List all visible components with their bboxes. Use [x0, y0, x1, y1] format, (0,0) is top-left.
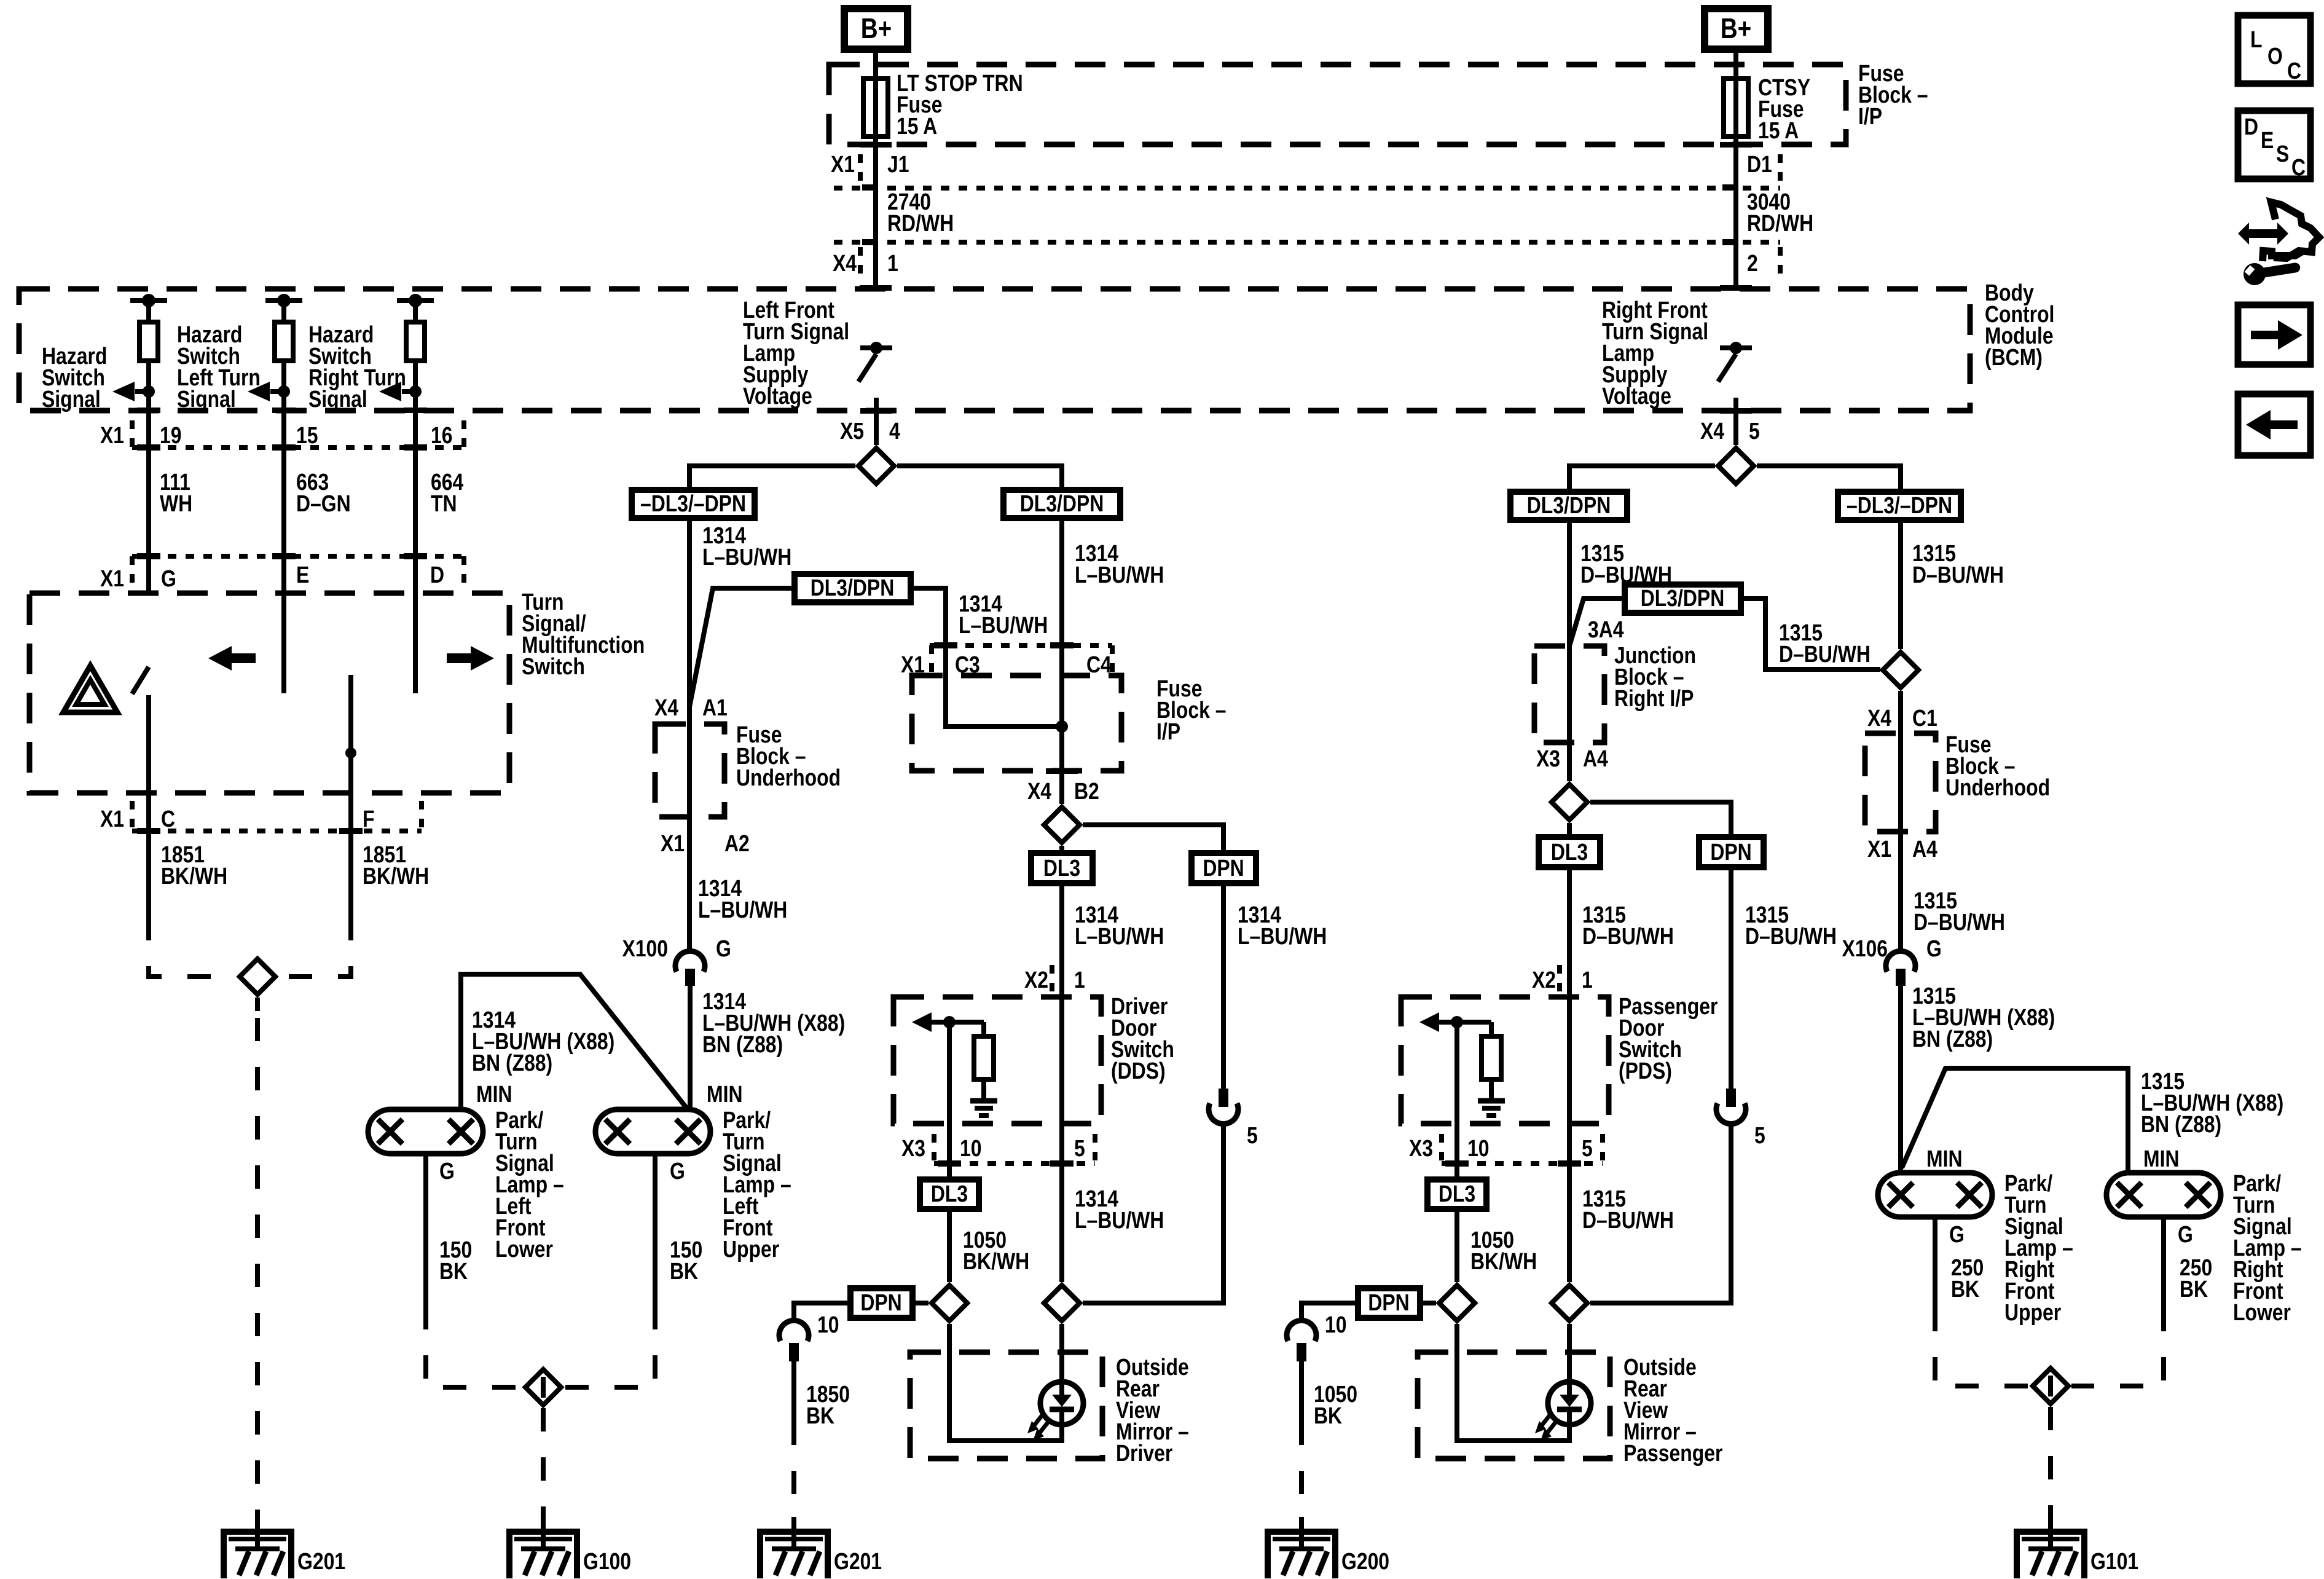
svg-text:BK/WH: BK/WH — [963, 1248, 1029, 1274]
wire diamond right to DPN branch — [1083, 825, 1223, 853]
splice diamond passenger mirror left — [1439, 1285, 1475, 1321]
dashed wire right lower lamp to splice — [2071, 1308, 2164, 1386]
fuse LT STOP TRN 15A — [863, 79, 888, 136]
junction node in fuse block — [1056, 720, 1068, 733]
fuse CTSY 15A — [1724, 79, 1748, 136]
DDS pull-up resistor — [974, 1022, 994, 1101]
svg-text:D–GN: D–GN — [296, 490, 351, 516]
dashed wire splice to G201 — [255, 998, 260, 1517]
wire diamond to -DL3/-DPN (left) — [689, 466, 855, 490]
wire hazard pin 16 — [413, 411, 418, 593]
wire lamp upper ground — [653, 1154, 658, 1306]
svg-text:B+: B+ — [861, 13, 892, 44]
svg-text:–DL3/–DPN: –DL3/–DPN — [1847, 492, 1952, 518]
svg-text:10: 10 — [1325, 1312, 1347, 1337]
svg-text:BK: BK — [1314, 1403, 1342, 1428]
wire DPN branch down to 5-connector — [1221, 883, 1226, 1089]
wire B+ right to fuse — [1733, 53, 1738, 136]
svg-text:TN: TN — [431, 490, 457, 516]
icon box LOC — [2238, 15, 2310, 84]
svg-text:X4: X4 — [654, 695, 678, 720]
wire label 1851 BK/WH (C) — [161, 841, 227, 889]
fuse block underhood dashed box (left) — [655, 724, 724, 817]
hazard switch signal resistor circuit 1 — [112, 294, 167, 411]
svg-text:X1: X1 — [661, 830, 685, 856]
connector row X4 1 / 2 — [833, 242, 1780, 277]
wire D stub in switch — [413, 593, 418, 693]
wire label 1314 L-BU/WH (X88) BN (Z88) lamp lower — [472, 1007, 614, 1076]
connector X4 pin B2 labels — [1027, 778, 1099, 804]
icon box arrow right — [2238, 305, 2310, 364]
svg-text:BK: BK — [1951, 1276, 1979, 1302]
wire hazard pin 19 — [146, 411, 151, 593]
DDS internal ground — [970, 1101, 997, 1116]
svg-text:Underhood: Underhood — [1945, 774, 2050, 800]
connector X4 pin 5 labels (right) — [1700, 418, 1760, 444]
splice diamond passenger mirror right — [1552, 1285, 1587, 1321]
svg-text:(DDS): (DDS) — [1111, 1058, 1166, 1084]
connector row X1 C3 C4 — [901, 645, 1112, 678]
splice diamond driver mirror right — [1044, 1285, 1080, 1321]
svg-text:1: 1 — [1582, 967, 1593, 993]
connector X5 pin 4 labels — [840, 418, 900, 444]
wire inline box right lead to C3 — [911, 588, 1062, 726]
svg-text:O: O — [2267, 43, 2283, 69]
splice diamond below B2 — [1044, 807, 1080, 843]
svg-text:Right I/P: Right I/P — [1614, 685, 1694, 711]
connector row X1 C F — [100, 801, 422, 832]
svg-text:DPN: DPN — [860, 1290, 901, 1315]
svg-text:L–BU/WH: L–BU/WH — [1075, 562, 1164, 588]
svg-text:X5: X5 — [840, 418, 864, 444]
wire A1 to A2 through fuse block — [687, 724, 692, 951]
svg-text:Voltage: Voltage — [1602, 383, 1671, 409]
svg-text:10: 10 — [960, 1135, 982, 1161]
splice diamond X5-4 — [858, 448, 894, 484]
lamp park/turn signal right front lower — [2106, 1173, 2221, 1217]
turn signal / multifunction switch dashed box — [29, 593, 509, 793]
label Hazard Switch Signal — [42, 343, 107, 412]
svg-text:Signal: Signal — [42, 386, 101, 412]
connector row X1 G E D — [100, 556, 464, 592]
wire E stub in switch — [281, 593, 286, 693]
svg-text:Upper: Upper — [2004, 1299, 2062, 1325]
wire label 1315 D-BU/WH (left branch) — [1580, 540, 1672, 588]
icon box arrow left — [2238, 394, 2310, 455]
svg-text:B2: B2 — [1074, 778, 1099, 804]
svg-text:10: 10 — [817, 1312, 839, 1337]
splice diamond to G100 — [525, 1369, 561, 1405]
wire 10-connector to DPN box to splice — [794, 1303, 850, 1321]
net box DPN (driver mirror feed) — [850, 1288, 913, 1318]
net box DL3/DPN (right of left diamond) — [1003, 490, 1120, 518]
wire label 1314 L-BU/WH (A2) — [698, 875, 787, 923]
wire lamp right upper ground — [1933, 1217, 1937, 1308]
connector X4 pin A1 labels — [654, 695, 728, 720]
svg-text:C: C — [161, 806, 175, 832]
inline connector 5 (driver DPN) — [1209, 1089, 1258, 1149]
ground G101 — [2017, 1517, 2138, 1578]
wire diamond to DL3/DPN (right) — [897, 466, 1062, 490]
wire label 1315 D-BU/WH (A4) — [1914, 888, 2005, 935]
hazard symbol triangle — [63, 666, 117, 712]
inline connector X106 pin G — [1842, 935, 1941, 986]
net box -DL3/-DPN (right section) — [1838, 492, 1961, 520]
net box DPN (passenger mirror feed) — [1358, 1288, 1420, 1318]
svg-text:Lower: Lower — [495, 1236, 553, 1262]
label Fuse Block Underhood (right) — [1945, 731, 2050, 800]
wire label 250 BK (upper) — [1951, 1254, 1984, 1302]
svg-text:5: 5 — [1582, 1135, 1593, 1161]
wire 5-connector down and left to splice (passenger) — [1590, 1124, 1731, 1303]
label Passenger Door Switch (PDS) — [1619, 993, 1718, 1084]
splice diamond below A4 — [1552, 784, 1587, 820]
connector X1 pin A4 labels — [1867, 836, 1937, 862]
label Park/Turn Signal Lamp - Right Front Upper — [2004, 1170, 2073, 1325]
wire label 1314 L-BU/WH (under DL3/DPN) — [1075, 540, 1164, 588]
svg-text:C4: C4 — [1086, 652, 1112, 677]
svg-text:S: S — [2276, 141, 2289, 167]
svg-text:–DL3/–DPN: –DL3/–DPN — [640, 490, 746, 516]
svg-text:D: D — [430, 562, 444, 588]
svg-text:DL3/DPN: DL3/DPN — [1641, 585, 1725, 611]
wire label 1315 D-BU/WH (DPN passenger) — [1745, 902, 1837, 949]
fuse block underhood dashed box (right) — [1865, 733, 1936, 832]
inline connector 5 (passenger DPN) — [1716, 1089, 1765, 1149]
net box -DL3/-DPN (left) — [632, 490, 755, 518]
dashed wire F down to splice — [279, 917, 351, 977]
svg-text:X4: X4 — [1027, 778, 1051, 804]
wire inline box left lead with diagonal to A1 — [689, 588, 795, 707]
svg-text:Underhood: Underhood — [736, 765, 841, 790]
lamp park/turn signal left front upper — [595, 1109, 710, 1154]
svg-text:X1: X1 — [100, 806, 124, 832]
hazard switch blade (G) — [132, 667, 149, 694]
svg-text:3A4: 3A4 — [1588, 616, 1624, 642]
wire X106 down to lamp right upper MIN — [1898, 986, 1903, 1175]
label Fuse Block Underhood (left) — [736, 722, 841, 790]
connector X2 pin 1 labels (DDS) — [1024, 965, 1085, 996]
label Junction Block - Right I/P — [1614, 642, 1696, 711]
inline connector 10 (driver) — [779, 1312, 839, 1361]
power symbol B+ (left) — [844, 9, 908, 49]
net box DL3 (DDS output) — [920, 1179, 979, 1209]
svg-text:X3: X3 — [1409, 1135, 1433, 1161]
wire label 111 WH — [160, 469, 192, 516]
connector row X1 J1 / D1 — [831, 151, 1780, 188]
label Fuse Block I/P (middle) — [1156, 675, 1227, 744]
svg-text:J1: J1 — [887, 151, 909, 177]
icon wrench with arrows — [2238, 202, 2319, 287]
wire label 1314 L-BU/WH (DDS pin5) — [1075, 1186, 1164, 1233]
hazard switch left turn resistor circuit 2 — [248, 294, 302, 411]
hazard switch right turn resistor circuit 3 — [379, 294, 434, 411]
dashed wire splice to G101 — [2048, 1407, 2053, 1517]
svg-text:DL3: DL3 — [1043, 855, 1080, 881]
wire lamp right lower ground — [2161, 1217, 2166, 1308]
svg-text:BN (Z88): BN (Z88) — [2141, 1111, 2221, 1137]
svg-text:G201: G201 — [297, 1548, 345, 1574]
svg-text:DPN: DPN — [1710, 839, 1751, 865]
svg-text:X1: X1 — [831, 151, 855, 177]
ground G100 — [509, 1517, 631, 1578]
wire label 1314 L-BU/WH (under -DL3/-DPN) — [702, 522, 791, 570]
wire label 2740 RD/WH — [887, 189, 954, 236]
svg-text:Signal: Signal — [177, 386, 236, 412]
splice diamond to G101 — [2033, 1368, 2068, 1404]
svg-text:10: 10 — [1467, 1135, 1490, 1161]
wire label 3040 RD/WH — [1747, 189, 1813, 236]
dashed wire C down to splice — [149, 917, 237, 977]
svg-text:G201: G201 — [834, 1548, 882, 1574]
svg-text:MIN: MIN — [1926, 1146, 1962, 1171]
svg-text:Signal: Signal — [308, 386, 367, 412]
wire label 1314 L-BU/WH (C3) — [959, 591, 1048, 638]
svg-text:I/P: I/P — [1156, 719, 1180, 744]
inline connector 10 (passenger) — [1287, 1312, 1347, 1361]
svg-text:RD/WH: RD/WH — [1747, 210, 1813, 236]
svg-text:(PDS): (PDS) — [1619, 1058, 1672, 1084]
svg-text:Upper: Upper — [723, 1236, 780, 1262]
wire diamond down to C1 — [1898, 691, 1903, 733]
svg-text:DL3: DL3 — [931, 1181, 968, 1207]
svg-text:L–BU/WH: L–BU/WH — [959, 612, 1048, 638]
wire label 250 BK (lower) — [2180, 1254, 2212, 1302]
LED turn indicator (passenger mirror) — [1535, 1382, 1591, 1441]
svg-text:BK/WH: BK/WH — [161, 863, 227, 889]
connector row X3 10 5 (DDS) — [901, 1134, 1095, 1164]
wire diamond down to DL3 (passenger) — [1567, 823, 1572, 837]
svg-text:D–BU/WH: D–BU/WH — [1779, 641, 1871, 667]
svg-text:15 A: 15 A — [897, 113, 937, 139]
dashed wire splice to G100 — [541, 1408, 546, 1517]
svg-text:Voltage: Voltage — [743, 383, 812, 409]
LED turn indicator (driver mirror) — [1027, 1382, 1083, 1441]
label Park/Turn Signal Lamp - Left Front Lower — [495, 1107, 564, 1262]
wire B+ left to fuse — [873, 53, 878, 136]
wire DL3 box down to splice (passenger) — [1454, 1209, 1459, 1282]
svg-text:D–BU/WH: D–BU/WH — [1745, 923, 1837, 949]
lamp park/turn signal right front upper — [1878, 1173, 1992, 1217]
wire label 1050 BK/WH (passenger) — [1470, 1227, 1537, 1274]
wire DL3 down to PDS pin 1 — [1567, 867, 1572, 1124]
svg-text:C: C — [2291, 154, 2306, 180]
wire label 1315 D-BU/WH (DL3 passenger) — [1582, 902, 1674, 949]
svg-text:BK: BK — [2180, 1276, 2208, 1302]
wire X100 down to lamp upper MIN — [688, 986, 693, 1112]
splice diamond right column — [1883, 652, 1918, 688]
wire label 1314 L-BU/WH (DPN) — [1238, 902, 1327, 949]
svg-text:DL3: DL3 — [1551, 839, 1588, 865]
wire 10-connector down to G200 — [1299, 1361, 1304, 1517]
label Park/Turn Signal Lamp - Right Front Lower — [2233, 1170, 2302, 1325]
connector X1 pin A2 labels — [661, 830, 750, 856]
lamp park/turn signal left front lower — [368, 1109, 483, 1154]
connector X4 pin C1 labels — [1867, 705, 1937, 731]
wire inline box right lead to right diamond — [1741, 599, 1880, 669]
label Hazard Switch Left Turn Signal — [177, 321, 261, 412]
label Left Front Turn Signal Lamp Supply Voltage — [743, 297, 849, 409]
svg-text:F: F — [363, 806, 374, 832]
wire label 1315 L-BU/WH (X88) BN (Z88) right upper — [1912, 983, 2055, 1052]
BCM internal switch left (left front supply) — [858, 342, 892, 445]
label Outside Rear View Mirror - Driver — [1116, 1354, 1189, 1466]
wire label 1315 D-BU/WH (PDS pin5) — [1582, 1186, 1674, 1233]
svg-text:X1: X1 — [1867, 836, 1891, 862]
svg-text:BN (Z88): BN (Z88) — [472, 1050, 552, 1076]
svg-text:BN (Z88): BN (Z88) — [702, 1031, 783, 1057]
outside rear view mirror driver dashed box — [910, 1352, 1102, 1459]
svg-text:X4: X4 — [1867, 705, 1891, 731]
label Body Control Module (BCM) — [1985, 280, 2054, 370]
inline connector X100 pin G — [622, 935, 731, 986]
connector X3 pin A4 labels — [1536, 746, 1608, 771]
splice diamond (hazard ground) — [240, 959, 275, 994]
svg-text:1: 1 — [1074, 967, 1085, 993]
wire fuse D1 right — [1733, 136, 1738, 289]
svg-text:E: E — [2261, 127, 2274, 153]
inline net box DL3/DPN (right) — [1625, 585, 1741, 613]
wire diamond to DL3/DPN (right section left) — [1569, 466, 1715, 492]
svg-text:G101: G101 — [2090, 1548, 2138, 1574]
left turn arrow (switch) — [208, 646, 256, 671]
svg-text:G100: G100 — [583, 1548, 631, 1574]
wire PDS switch output to pin 10 — [1454, 1022, 1459, 1179]
wire label 1315 L-BU/WH (X88) BN (Z88) right lower — [2141, 1068, 2283, 1137]
wire label 1314 L-BU/WH (X88) BN (Z88) right of X100 — [702, 988, 845, 1057]
wire label 150 BK (lower) — [439, 1237, 472, 1284]
svg-text:X1: X1 — [100, 422, 124, 448]
svg-text:2: 2 — [1747, 250, 1758, 276]
svg-text:X100: X100 — [622, 935, 668, 961]
svg-text:X4: X4 — [1700, 418, 1724, 444]
svg-text:G: G — [716, 935, 731, 961]
svg-text:DL3/DPN: DL3/DPN — [1527, 492, 1611, 518]
wire DL3 down to DDS pin 1 — [1059, 883, 1064, 1124]
svg-text:15 A: 15 A — [1758, 117, 1799, 143]
svg-text:Driver: Driver — [1116, 1440, 1173, 1466]
label Hazard Switch Right Turn Signal — [308, 321, 406, 412]
junction block right I/P dashed box — [1534, 646, 1604, 742]
fuse block I/P dashed box — [829, 65, 1846, 144]
wire G below blade to C — [146, 695, 151, 917]
svg-text:L–BU/WH: L–BU/WH — [702, 544, 791, 570]
wire label 1315 D-BU/WH (right branch) — [1912, 540, 2004, 588]
BCM internal switch right (right front supply) — [1718, 342, 1752, 445]
svg-text:G: G — [1949, 1221, 1965, 1247]
svg-text:5: 5 — [1247, 1122, 1258, 1148]
svg-text:DL3: DL3 — [1439, 1181, 1475, 1207]
wire hazard pin 15 — [281, 411, 286, 593]
net box DPN (passenger feed) — [1699, 837, 1764, 867]
svg-text:15: 15 — [296, 422, 318, 448]
wire 10-connector to DPN box to splice (passenger) — [1301, 1303, 1358, 1321]
wire label 1050 BK — [1314, 1381, 1357, 1428]
svg-text:MIN: MIN — [2143, 1146, 2179, 1171]
svg-text:MIN: MIN — [707, 1081, 742, 1107]
net box DPN (driver feed) — [1191, 853, 1256, 883]
wire F inside switch with junction — [345, 675, 356, 917]
wire fuse J1 left — [873, 136, 878, 289]
wire PDS pin 5 through box — [1567, 1124, 1572, 1282]
svg-text:D–BU/WH: D–BU/WH — [1582, 1207, 1674, 1233]
svg-text:1: 1 — [887, 250, 898, 276]
wire diamond to -DL3/-DPN (right section right) — [1757, 466, 1901, 492]
svg-text:L–BU/WH: L–BU/WH — [1075, 1207, 1164, 1233]
svg-text:5: 5 — [1749, 418, 1760, 444]
svg-text:B+: B+ — [1721, 13, 1751, 44]
svg-text:D–BU/WH: D–BU/WH — [1914, 909, 2005, 935]
wire label 1314 L-BU/WH (DL3) — [1075, 902, 1164, 949]
PDS internal ground — [1478, 1101, 1505, 1116]
svg-text:X3: X3 — [901, 1135, 925, 1161]
wire label 1850 BK — [806, 1381, 850, 1428]
svg-text:G: G — [439, 1158, 455, 1184]
svg-text:X3: X3 — [1536, 746, 1560, 771]
svg-text:MIN: MIN — [476, 1081, 512, 1107]
svg-text:E: E — [296, 562, 309, 588]
ground G201 (left) — [224, 1517, 345, 1578]
ground G201 (middle) — [760, 1517, 882, 1578]
label Park/Turn Signal Lamp - Left Front Upper — [723, 1107, 791, 1262]
driver door switch DDS dashed box — [893, 997, 1101, 1124]
svg-text:L–BU/WH: L–BU/WH — [698, 897, 787, 923]
wire lamp lower ground — [423, 1154, 428, 1306]
svg-text:(BCM): (BCM) — [1985, 344, 2043, 370]
power symbol B+ (right) — [1705, 9, 1768, 49]
svg-text:A4: A4 — [1912, 836, 1937, 862]
svg-text:4: 4 — [889, 418, 900, 444]
svg-text:BK: BK — [806, 1403, 834, 1428]
wire C1 to A4 through fuse block — [1898, 733, 1903, 951]
svg-text:X2: X2 — [1532, 967, 1556, 993]
wire -DL3/-DPN down to A1 — [687, 518, 692, 724]
wire DDS switch output to pin 10 — [947, 1022, 952, 1179]
dashed wire lamp lower to splice — [426, 1306, 522, 1387]
svg-text:WH: WH — [160, 490, 192, 516]
svg-text:G: G — [670, 1158, 685, 1184]
PDS pull-up resistor — [1482, 1022, 1501, 1101]
svg-text:BN (Z88): BN (Z88) — [1912, 1026, 1993, 1052]
svg-text:BK: BK — [670, 1258, 698, 1284]
connector X2 pin 1 labels (PDS) — [1532, 965, 1593, 996]
connector row X3 10 5 (PDS) — [1409, 1134, 1603, 1164]
net box DL3 (passenger feed) — [1539, 837, 1600, 867]
BCM dashed box — [19, 289, 1970, 411]
svg-text:Lower: Lower — [2233, 1299, 2291, 1325]
svg-text:A1: A1 — [702, 695, 728, 720]
wire label 663 D-GN — [296, 469, 351, 516]
ground G200 — [1268, 1517, 1389, 1578]
svg-text:D: D — [2244, 114, 2258, 140]
svg-text:5: 5 — [1074, 1135, 1085, 1161]
svg-text:BK/WH: BK/WH — [363, 863, 429, 889]
inline net box DL3/DPN (left) — [795, 574, 911, 602]
svg-text:Switch: Switch — [522, 653, 585, 679]
wire label 150 BK (upper) — [670, 1237, 702, 1284]
svg-text:C: C — [2287, 58, 2301, 84]
svg-text:X1: X1 — [100, 565, 124, 591]
net box DL3 (driver feed) — [1031, 853, 1093, 883]
right turn arrow (switch) — [447, 646, 494, 671]
svg-text:G: G — [161, 565, 176, 591]
wire label 1050 BK/WH — [963, 1227, 1029, 1274]
DDS signal arrow — [912, 1012, 984, 1032]
svg-text:X4: X4 — [833, 250, 857, 276]
svg-text:D–BU/WH: D–BU/WH — [1582, 923, 1674, 949]
svg-text:L: L — [2250, 26, 2262, 52]
mirror driver internal wiring — [949, 1324, 1062, 1441]
